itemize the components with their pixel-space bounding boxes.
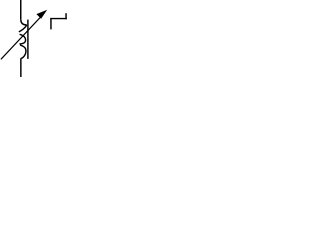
wire bottom lead xyxy=(20,58,22,77)
inductor L1 loop 2 (middle petal) xyxy=(20,34,26,44)
wire top lead xyxy=(20,0,22,19)
inductor L1 loop 3 (bottom petal into bottom lead) xyxy=(20,45,26,58)
wire right step vertical stub down xyxy=(50,19,52,30)
inductor L1 loop 1 (top S-curve into first cusp) xyxy=(19,19,27,32)
variability arrow shaft xyxy=(1,17,41,60)
wire right step horizontal xyxy=(50,18,67,20)
inductor L1 right side straight line xyxy=(27,20,29,59)
variability arrow head xyxy=(36,10,47,19)
wire right step vertical stub up xyxy=(65,13,67,19)
